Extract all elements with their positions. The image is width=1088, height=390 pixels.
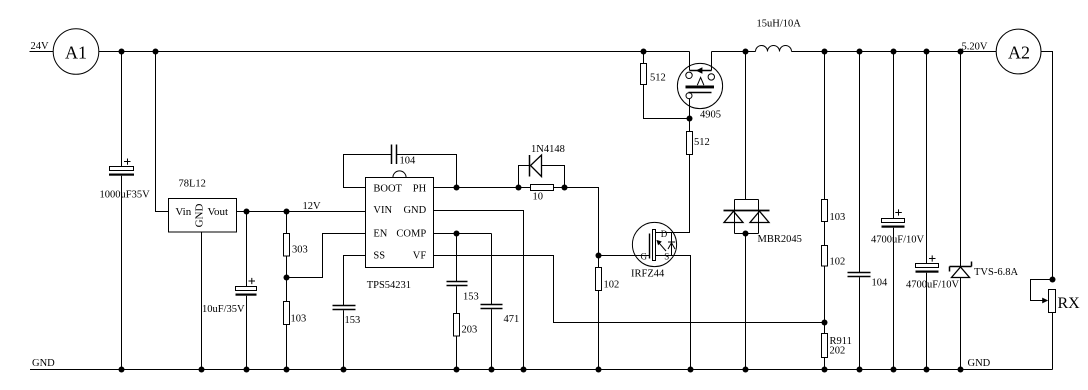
svg-text:D: D [661, 229, 668, 239]
junction [857, 49, 863, 55]
svg-text:GND: GND [968, 358, 991, 369]
svg-text:303: 303 [292, 245, 308, 256]
svg-text:IRFZ44: IRFZ44 [631, 269, 665, 280]
junction [562, 185, 568, 191]
junction [688, 367, 694, 373]
svg-text:153: 153 [463, 292, 479, 303]
potentiometer RX [1031, 280, 1081, 370]
svg-text:VF: VF [413, 251, 427, 262]
svg-text:102: 102 [830, 257, 846, 268]
capacitor 104 output [848, 52, 889, 370]
wire SS net [344, 256, 366, 306]
svg-text:PH: PH [413, 184, 427, 195]
junction [822, 320, 828, 326]
resistor 303 [284, 212, 308, 278]
terminal A2 [996, 29, 1041, 74]
node GND label right [968, 358, 991, 369]
junction [454, 367, 460, 373]
svg-text:G: G [641, 252, 648, 262]
svg-text:S: S [664, 252, 669, 262]
svg-text:RX: RX [1058, 295, 1081, 312]
svg-text:COMP: COMP [396, 228, 426, 239]
wire TPS GND pin to ground [434, 211, 524, 370]
junction [153, 49, 159, 55]
svg-text:103: 103 [830, 212, 846, 223]
wire COMP net [434, 233, 492, 235]
junction [244, 367, 250, 373]
svg-text:78L12: 78L12 [179, 179, 206, 190]
junction [743, 49, 749, 55]
junction [489, 367, 495, 373]
junction [199, 367, 205, 373]
svg-text:GND: GND [403, 205, 426, 216]
junction [857, 367, 863, 373]
svg-text:4700uF/10V: 4700uF/10V [871, 235, 925, 246]
svg-text:A1: A1 [65, 43, 87, 63]
capacitor 4700uF/10V first [871, 52, 925, 370]
svg-text:471: 471 [504, 314, 520, 325]
junction [119, 49, 125, 55]
junction [521, 367, 527, 373]
junction [924, 367, 930, 373]
junction [244, 209, 250, 215]
junction [958, 367, 964, 373]
terminal A1 [53, 29, 99, 75]
junction [958, 49, 964, 55]
svg-text:104: 104 [872, 278, 889, 289]
junction [454, 231, 460, 237]
transistor Q2 IRFZ44 [631, 155, 691, 370]
svg-text:4905: 4905 [700, 110, 721, 121]
junction [743, 367, 749, 373]
junction [119, 367, 125, 373]
transistor Q1 4905 [677, 52, 722, 121]
wire 24V input lead [30, 51, 54, 53]
svg-text:103: 103 [291, 314, 307, 325]
svg-text:4700uF/10V: 4700uF/10V [906, 280, 960, 291]
junction [891, 49, 897, 55]
junction [687, 116, 693, 122]
capacitor 10uF/35V [202, 212, 257, 370]
wire ground rail [30, 369, 1053, 371]
junction gate node [596, 253, 602, 259]
wire top rail right [712, 51, 997, 53]
junction [743, 231, 749, 237]
svg-text:VIN: VIN [373, 205, 392, 216]
resistor 103 output [822, 52, 846, 246]
junction [596, 367, 602, 373]
svg-text:5.20V: 5.20V [962, 42, 988, 53]
wire divider midpoint to EN [287, 234, 366, 278]
junction [822, 367, 828, 373]
wire 24V to 78L12 Vin [156, 52, 169, 212]
junction [284, 367, 290, 373]
diode TVS-6.8A [950, 52, 1019, 370]
resistor 512 second [687, 119, 710, 155]
junction [822, 49, 828, 55]
junction [454, 185, 460, 191]
node GND label left [32, 358, 55, 369]
capacitor 153 ss [333, 306, 361, 370]
svg-text:203: 203 [462, 325, 478, 336]
wire 78L12 Vout 12V rail to VIN [237, 211, 366, 213]
svg-text:GND: GND [193, 204, 205, 228]
svg-text:EN: EN [373, 228, 387, 239]
junction [924, 49, 930, 55]
resistor 512 first [641, 52, 690, 119]
wire gate node to IRFZ44 gate [599, 255, 650, 257]
svg-text:15uH/10A: 15uH/10A [757, 19, 802, 30]
svg-text:102: 102 [604, 280, 620, 291]
resistor 103 [284, 278, 307, 370]
diode 1N4148 [530, 144, 565, 177]
svg-text:10: 10 [533, 192, 544, 203]
svg-text:Vin: Vin [175, 206, 191, 218]
svg-text:24V: 24V [31, 41, 50, 52]
junction [641, 49, 647, 55]
node 24V label [31, 41, 50, 52]
node 12V label [303, 201, 322, 212]
svg-text:TVS-6.8A: TVS-6.8A [974, 267, 1018, 278]
svg-text:TPS54231: TPS54231 [367, 280, 411, 291]
junction [284, 209, 290, 215]
wire top rail left (A1 to 4905 source) [99, 51, 690, 53]
capacitor 471 [481, 234, 520, 370]
svg-text:MBR2045: MBR2045 [758, 234, 802, 245]
wire VF feedback net [434, 256, 825, 323]
wire A2 right lead down [1041, 52, 1053, 280]
regulator 78L12 [169, 179, 237, 233]
capacitor 153 comp [447, 234, 479, 314]
capacitor 104 boot [392, 145, 417, 167]
svg-text:Vout: Vout [208, 206, 229, 218]
wire BOOT loop [344, 155, 457, 188]
resistor R911 202 [822, 334, 852, 370]
svg-text:A2: A2 [1008, 43, 1030, 63]
svg-text:10uF/35V: 10uF/35V [202, 304, 245, 315]
diode MBR2045 [724, 52, 802, 370]
wire diode branch [519, 166, 565, 188]
junction [341, 367, 347, 373]
capacitor 1000uF35V [100, 52, 151, 370]
wire 78L12 GND pin to ground [201, 232, 203, 370]
resistor 102 gate [596, 256, 620, 370]
svg-text:202: 202 [830, 346, 846, 357]
svg-text:12V: 12V [303, 201, 322, 212]
resistor 10 [531, 185, 554, 203]
capacitor 4700uF/10V second [906, 52, 960, 370]
svg-text:1000uF35V: 1000uF35V [100, 190, 151, 201]
svg-text:BOOT: BOOT [373, 184, 402, 195]
junction [891, 367, 897, 373]
resistor 203 [454, 314, 478, 370]
op-amp U1 TPS54231 [366, 171, 434, 291]
svg-text:SS: SS [373, 251, 385, 262]
svg-text:153: 153 [345, 315, 361, 326]
svg-text:512: 512 [694, 137, 710, 148]
svg-text:104: 104 [400, 156, 417, 167]
inductor 15uH/10A [756, 19, 802, 52]
node 5.20V label [962, 42, 988, 53]
svg-text:GND: GND [32, 358, 55, 369]
junction [284, 275, 290, 281]
junction [1050, 277, 1056, 283]
wire PH net [434, 188, 599, 256]
svg-text:1N4148: 1N4148 [531, 144, 565, 155]
svg-text:512: 512 [650, 73, 666, 84]
resistor 102 output [822, 246, 846, 334]
junction [516, 185, 522, 191]
